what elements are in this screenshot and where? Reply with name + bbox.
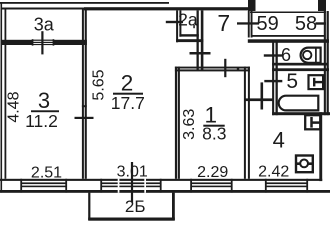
wall bath5 top: [272, 68, 329, 71]
landing right wall double / right outer wall: [324, 11, 326, 115]
room 1 fraction line: [203, 125, 224, 127]
balcony 2B bottom: [88, 218, 175, 221]
svg-text:5.65: 5.65: [90, 69, 107, 100]
svg-text:8.3: 8.3: [202, 124, 226, 144]
svg-text:2а: 2а: [178, 9, 198, 29]
bathtub: [279, 96, 319, 111]
landing left wall double: [248, 11, 250, 38]
bottom outer wall top line: [0, 179, 322, 181]
closet 2a cross: [166, 21, 183, 23]
window room3 ticks: [20, 179, 22, 193]
window kitchen lines: [266, 182, 307, 184]
svg-text:2.29: 2.29: [197, 164, 228, 181]
window room2 pane breaks: [118, 179, 146, 193]
landing bottom thick wall: [248, 39, 329, 43]
stair landing box top line: [250, 12, 326, 14]
svg-text:2.51: 2.51: [31, 164, 62, 181]
svg-text:2: 2: [121, 71, 134, 96]
balcony 2B right edge: [172, 193, 175, 220]
door cross bath 5: [264, 80, 282, 82]
wall room1/kitchen double: [244, 67, 246, 179]
window kitchen ticks: [265, 179, 267, 193]
balcony 3a / left outer wall line: [1, 2, 3, 193]
door cross corridor7/room2: [190, 52, 211, 55]
wall 3a/room3 with window: top line: [2, 40, 33, 45]
closet 2a left outer wall: [176, 11, 178, 43]
svg-text:17.7: 17.7: [111, 93, 145, 113]
window room2 ticks: [100, 179, 102, 193]
svg-text:2.42: 2.42: [258, 164, 289, 181]
svg-text:58: 58: [295, 13, 317, 35]
svg-text:3а: 3а: [34, 15, 55, 35]
window room2 lines: [101, 182, 161, 184]
door cross room3/room2: [75, 117, 94, 119]
closet 2a outer bottom: [176, 39, 203, 42]
closet 2a inner bottom: [179, 34, 198, 36]
wall room2/room1 double: [175, 67, 177, 179]
stove: [296, 156, 313, 173]
landing bottom thin line: [252, 35, 325, 37]
balcony 2B door line: [131, 162, 133, 202]
wall tie room1 top: [237, 68, 239, 69]
wall tie room3/room2: [82, 105, 87, 107]
wall room3/room2 double: [82, 10, 84, 179]
closet label stem mark: [193, 24, 195, 28]
top wall stub left (stair): [248, 0, 256, 11]
balcony door cross: [41, 31, 43, 54]
wall corridor/wc-bath double: [272, 41, 274, 115]
top wall stub right (stair): [318, 0, 326, 11]
window room1 lines: [191, 182, 232, 184]
left wall inner line: [5, 8, 7, 179]
svg-text:3: 3: [38, 88, 50, 113]
window mid line: [33, 42, 54, 43]
balcony 3a outer railing top: [0, 2, 169, 4]
svg-text:6: 6: [281, 45, 291, 65]
top outer wall: [2, 8, 84, 10]
window room3 lines: [21, 182, 66, 184]
wall corridor7/closet double: [197, 11, 199, 72]
svg-text:59: 59: [256, 13, 278, 35]
svg-text:5: 5: [286, 70, 298, 93]
svg-text:7: 7: [217, 10, 230, 36]
svg-text:4.48: 4.48: [5, 91, 22, 122]
room 3 fraction line: [31, 110, 59, 112]
window room1 ticks: [190, 179, 192, 193]
entry door cross flat 59: [237, 22, 259, 24]
door cross wc 6: [264, 54, 283, 56]
wall wc6 bottom: [272, 63, 327, 66]
entry door cross flat 58: [316, 22, 327, 24]
kitchen right wall: [319, 112, 322, 181]
door cross corridor7/room1: [224, 59, 226, 77]
bottom outer wall bottom line: [0, 190, 330, 193]
closet 2a left inner wall: [179, 11, 181, 37]
balcony 2B left edge: [88, 193, 90, 220]
room1 top wall double: [175, 67, 250, 69]
window tick left: [32, 39, 34, 45]
svg-text:2Б: 2Б: [125, 197, 146, 216]
kitchen sink: [305, 115, 320, 129]
window tick right: [53, 39, 55, 45]
toilet bowl icon: [301, 48, 321, 63]
washbasin bath: [309, 75, 324, 89]
wall 3a/room3 bottom line: [33, 44, 54, 45]
doorway cross corridor/kitchen: [261, 82, 264, 109]
wall bath5 bottom / kitchen top: [272, 112, 330, 115]
svg-text:11.2: 11.2: [25, 111, 58, 131]
svg-text:3.01: 3.01: [117, 163, 148, 180]
svg-text:3.63: 3.63: [181, 109, 198, 140]
svg-text:4: 4: [273, 128, 285, 153]
room 2 fraction line: [113, 93, 143, 95]
